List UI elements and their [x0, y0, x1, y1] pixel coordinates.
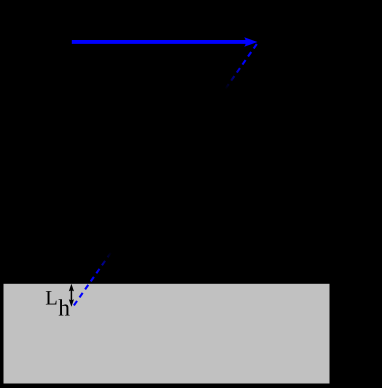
dashed trajectory line (fading, blue)	[74, 43, 258, 306]
L_h measurement double arrow shaft	[70, 289, 72, 303]
velocity arrow shaft	[72, 40, 246, 44]
svg-text:h: h	[58, 296, 70, 322]
L_h double arrow bottom head	[69, 299, 74, 307]
gray material block	[4, 284, 330, 384]
velocity arrow head	[244, 37, 257, 47]
svg-text:L: L	[45, 288, 58, 310]
L_h double arrow top head	[69, 284, 74, 292]
